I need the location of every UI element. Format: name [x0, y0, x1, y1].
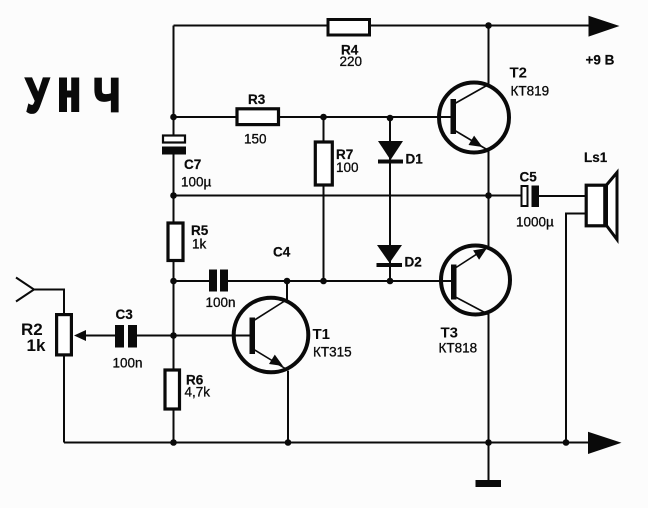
- diode D1: [378, 141, 403, 164]
- label C7: [181, 157, 212, 190]
- resistor R5: [168, 223, 183, 261]
- wire left rail lower (C7 bottom to bottom rail): [173, 155, 175, 443]
- label R5: [191, 223, 209, 252]
- svg-text:220: 220: [340, 54, 363, 69]
- node R7 top: [320, 114, 327, 121]
- label C5: [516, 170, 554, 230]
- svg-text:100µ: 100µ: [181, 175, 212, 190]
- node output junction T2/T3 emitters: [485, 192, 492, 199]
- bottom rail arrow: [588, 432, 622, 454]
- node D2 bottom: [387, 278, 394, 285]
- label +9 В: [586, 53, 615, 68]
- svg-text:КТ819: КТ819: [511, 84, 550, 99]
- wire C5 to speaker: [539, 195, 585, 197]
- svg-text:У: У: [26, 70, 49, 123]
- label R6: [185, 373, 211, 400]
- wire top supply rail: [174, 25, 590, 27]
- label T1: [313, 326, 352, 360]
- wire T1 emitter vertical: [287, 371, 289, 443]
- label R3: [244, 92, 267, 147]
- resistor R3: [237, 109, 279, 125]
- capacitor C5 (electrolytic): [522, 186, 540, 208]
- node D1 top: [387, 115, 394, 122]
- wire R2 bottom: [63, 357, 65, 443]
- node R5 bottom / row 281: [170, 278, 177, 285]
- svg-text:C5: C5: [520, 170, 538, 185]
- svg-text:T3: T3: [441, 325, 459, 342]
- svg-text:150: 150: [244, 132, 267, 147]
- ground: [476, 480, 502, 487]
- svg-text:T2: T2: [510, 65, 528, 82]
- wire R2 wiper to C3: [85, 335, 115, 337]
- node R3 row / left rail: [170, 114, 177, 121]
- svg-text:Ls1: Ls1: [584, 150, 608, 165]
- wire input to R2 top: [34, 290, 64, 314]
- input terminal arrow: [16, 278, 34, 302]
- label R7: [336, 147, 359, 175]
- svg-text:R3: R3: [248, 92, 266, 107]
- label D2: [405, 255, 422, 270]
- svg-text:1k: 1k: [27, 336, 46, 355]
- svg-text:100: 100: [336, 160, 359, 175]
- node R7 bottom: [320, 278, 327, 285]
- svg-text:100n: 100n: [113, 356, 143, 371]
- diode D2: [377, 245, 403, 267]
- transistor T2: [439, 83, 509, 153]
- wire output row 195 left (C7 bottom to C5): [174, 195, 521, 197]
- label R2: [21, 320, 46, 355]
- svg-text:C4: C4: [273, 245, 291, 260]
- node dots: [170, 22, 569, 446]
- svg-text:D1: D1: [406, 152, 424, 167]
- resistor R4: [328, 20, 370, 36]
- label T3: [439, 325, 478, 356]
- wire T2 emitter / T3 emitter vertical: [488, 150, 490, 246]
- node C7 bottom / output row: [170, 192, 177, 199]
- wire T2 collector vertical: [488, 26, 490, 86]
- speaker Ls1: [586, 173, 617, 240]
- node T2 collector / top rail: [485, 22, 492, 29]
- capacitor C3: [115, 325, 137, 348]
- svg-text:1k: 1k: [192, 237, 207, 252]
- svg-text:1000µ: 1000µ: [516, 215, 554, 230]
- svg-text:D2: D2: [405, 255, 422, 270]
- svg-text:+9 В: +9 В: [586, 53, 615, 68]
- wire T3 collector vertical + ground stem: [488, 314, 490, 481]
- svg-text:КТ818: КТ818: [439, 341, 478, 356]
- supply arrow +9V: [589, 16, 620, 37]
- node left rail / bottom rail: [170, 439, 177, 446]
- wire speaker return: [566, 214, 585, 443]
- wire diode column D1-D2: [389, 118, 391, 281]
- resistor R7: [315, 142, 332, 185]
- node T1 collector: [284, 278, 291, 285]
- wire row 281 left segment (R5 bottom to C4): [174, 280, 210, 282]
- wire T1 collector vertical: [286, 281, 288, 300]
- transistor T1: [234, 298, 309, 373]
- wire R7 column: [323, 117, 325, 281]
- label C4: [206, 245, 291, 311]
- resistor R6: [165, 370, 180, 409]
- node T1 base / left rail: [170, 332, 177, 339]
- svg-text:C7: C7: [184, 157, 201, 172]
- wire bottom ground rail: [64, 442, 589, 444]
- svg-text:4,7k: 4,7k: [185, 385, 211, 400]
- label Ls1: [584, 150, 608, 165]
- wire T1 base row (C3 to T1): [137, 335, 250, 337]
- svg-text:КТ315: КТ315: [313, 345, 352, 360]
- title УНЧ: [26, 69, 120, 123]
- label R4: [340, 43, 363, 70]
- transistor T3: [441, 246, 510, 315]
- svg-text:C3: C3: [116, 307, 134, 322]
- capacitor C7 (electrolytic): [162, 136, 186, 155]
- svg-text:100n: 100n: [206, 295, 236, 310]
- svg-text:T1: T1: [313, 326, 331, 343]
- node speaker return / bottom rail: [563, 439, 570, 446]
- wire row 281 right segment (C4 to T3 base): [228, 280, 452, 282]
- label C3: [113, 307, 143, 371]
- node ground / bottom rail: [485, 439, 492, 446]
- label D1: [406, 152, 424, 167]
- potentiometer R2: [57, 315, 86, 355]
- wire left rail upper (to C7 top plate): [173, 26, 175, 135]
- label T2: [510, 65, 550, 99]
- wire base row R3/T2 base: [174, 116, 452, 118]
- node T1 emitter / bottom rail: [285, 439, 292, 446]
- svg-text:Ч: Ч: [94, 69, 121, 121]
- capacitor C4: [209, 270, 228, 292]
